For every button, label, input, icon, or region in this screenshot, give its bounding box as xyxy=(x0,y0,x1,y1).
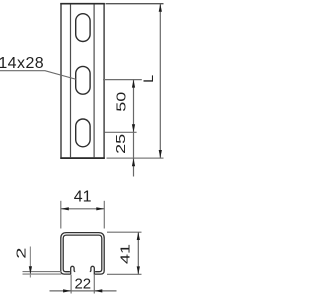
extension line 41-top right xyxy=(103,201,105,229)
leader line for slot label xyxy=(0,71,76,80)
arrow L down xyxy=(159,150,162,158)
arrow L up xyxy=(159,4,162,12)
extension line rail bottom xyxy=(107,157,164,159)
rail bottom cut edge xyxy=(60,157,105,159)
slot 2 (14x28) xyxy=(76,66,90,94)
slot 1 (14x28) xyxy=(76,14,90,42)
extension line slot2 center xyxy=(103,79,142,81)
extension line top (L) xyxy=(106,3,164,5)
rail front view outline xyxy=(61,4,104,158)
arrow 2 down xyxy=(29,266,32,274)
rail lip edge line left (front view) xyxy=(70,4,72,157)
dimension line L xyxy=(159,4,161,158)
svg-text:2: 2 xyxy=(14,248,29,259)
channel profile cross-section outer contour with lip hooks xyxy=(61,233,104,275)
svg-text:41: 41 xyxy=(119,244,133,264)
arrow 22 left outside xyxy=(63,289,71,292)
arrow 41-right up xyxy=(137,232,140,240)
extension line thickness inner xyxy=(23,271,62,273)
arrow 25 up from below xyxy=(132,158,135,166)
svg-text:14x28: 14x28 xyxy=(0,55,44,72)
arrow 50 down xyxy=(132,124,135,132)
arrow 41-top right xyxy=(96,207,104,210)
dimension line 22 xyxy=(50,290,117,292)
dimension line 50 xyxy=(133,80,135,133)
extension line 22 right xyxy=(93,275,95,294)
extension line 41-right top xyxy=(107,231,142,233)
svg-text:50: 50 xyxy=(115,92,129,112)
svg-text:L: L xyxy=(140,75,156,83)
extension line 22 left xyxy=(70,275,72,294)
arrow 41-top left xyxy=(61,207,69,210)
rail lip edge line right (front view) xyxy=(93,4,95,157)
extension line 41-top left xyxy=(60,201,62,229)
svg-text:41: 41 xyxy=(74,188,92,205)
dimension line 41 right xyxy=(137,232,139,274)
extension line thickness outer xyxy=(23,273,62,275)
extension line 41-right bottom xyxy=(107,273,142,275)
slot 3 (14x28) xyxy=(76,119,90,147)
svg-text:25: 25 xyxy=(114,134,128,154)
dimension line 25 with outside arrow xyxy=(133,132,135,176)
svg-text:22: 22 xyxy=(74,275,91,292)
extension line slot3 center xyxy=(105,131,137,133)
arrow 22 right outside xyxy=(94,289,102,292)
channel profile cross-section inner contour xyxy=(63,235,102,272)
arrow 50 up xyxy=(132,80,135,88)
arrow 41-right down xyxy=(137,266,140,274)
dimension line 2 xyxy=(29,247,31,278)
rail top cut edge xyxy=(60,3,105,5)
dimension line 41 top xyxy=(61,208,105,210)
